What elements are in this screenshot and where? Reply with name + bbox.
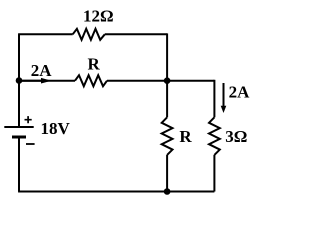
wire: vertical drop from top rail to middle rail [166,33,168,80]
wire: left rail bottom segment (battery - to bottom rail) [18,137,20,192]
wire: top rail left lead [18,33,73,35]
wire: right branch lower lead [213,155,215,192]
svg-text:3Ω: 3Ω [225,127,247,146]
label 18V value [41,119,71,138]
wire: middle rail right lead [107,80,214,82]
current arrow 2A left [20,78,52,84]
wire: middle rail left lead (node A to resistor R) [19,80,75,82]
wire: top rail right lead [105,33,167,35]
resistor R horizontal zigzag [75,75,107,86]
node junction dot left (node A) [16,77,23,84]
svg-text:2A: 2A [31,61,53,80]
battery plus sign [25,116,32,123]
resistor 3ohm vertical zigzag [209,117,220,155]
label 3ohm value [225,127,247,146]
label 2A left current [31,61,53,80]
label R horizontal [88,55,101,74]
node junction dot center top (node B) [164,77,171,84]
svg-text:18V: 18V [41,119,71,138]
svg-text:R: R [88,55,101,74]
node junction dot bottom center [164,188,171,195]
wire: center branch lower lead [166,155,168,192]
wire: right branch upper lead [213,80,215,118]
battery V1 positive long plate [4,126,33,128]
svg-text:R: R [179,127,192,146]
wire: center branch upper lead [166,81,168,118]
resistor R vertical zigzag [162,117,173,155]
wire: left rail top segment (node A to battery +) [18,34,20,127]
wire: bottom rail [18,191,214,193]
svg-text:12Ω: 12Ω [83,6,114,25]
svg-text:2A: 2A [229,82,251,101]
label 2A right current [229,82,251,101]
current arrow 2A right [221,83,227,113]
battery V1 negative short plate [12,136,26,139]
resistor 12ohm zigzag [73,29,105,40]
label R vertical [179,127,192,146]
battery minus sign [26,143,35,145]
label 12ohm value [83,6,114,25]
